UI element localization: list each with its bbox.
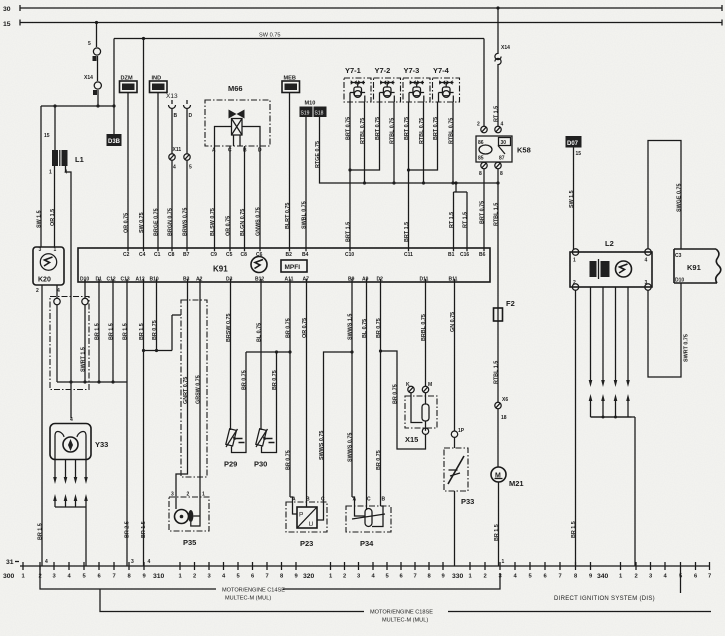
wire D2 branch to X15 loop BR 0.75 (381, 351, 426, 449)
wire spark plug return to rail (591, 417, 636, 566)
wires L2 HT outputs to spark plugs (589, 287, 632, 419)
wire ECU A7 GR 0.75 to P23 pin B (302, 282, 308, 507)
wire to L1 terminal 15 (44, 106, 55, 150)
shield box around P35 wires (181, 300, 207, 477)
oxygen sensor P34 (346, 497, 391, 549)
wire L2 pin2 ground BR 1.5 (571, 290, 577, 566)
wire K20 pin2 BR 1.5 to ground rail (38, 285, 49, 566)
wire Y7-3 RTBL 0.75 (419, 102, 425, 183)
wire ECU B11 GN 0.75 to P33 (450, 282, 465, 448)
ECU top pin labels (123, 252, 486, 258)
crank sensor P35 (169, 492, 209, 548)
track numbers 300 (3, 573, 147, 580)
bracket MOTOR/ENGINE C18SE (100, 589, 711, 624)
knock sensor P33 (444, 448, 474, 566)
wire P29 ground branch BR 0.75 (242, 350, 292, 390)
wire shield drain junction y382 (57, 380, 127, 383)
wire ECU D10 shielded SWRT 1.5 (81, 282, 89, 382)
wire ECU C13 ground BR 2.5 to rail (123, 282, 135, 566)
junction node y106 (41, 104, 116, 107)
wire ECU A9 BL 0.75 to P34 (362, 282, 368, 510)
wire sub-rail to K58 pin2 (483, 39, 485, 127)
label DIRECT IGNITION SYSTEM (DIS) (554, 570, 681, 602)
fuel pump M21 (491, 409, 524, 488)
rail tick marks (23, 562, 710, 570)
wire L2 pin3 to ECU D10, SWRT 0.75 (648, 283, 690, 377)
ECU K91 right continuation box (674, 249, 721, 284)
injector Y7-1 (344, 66, 371, 102)
wire X11 to ECU B7, BRWS 0.75 (183, 160, 189, 248)
wire ECU A11 BR 0.75 to P23 pin A (286, 282, 293, 502)
wire Y7-4 RTBL 0.75 (449, 102, 455, 183)
injector Y7-4 (433, 66, 460, 102)
track numbers 310 (153, 573, 299, 580)
wire ignition sub-rail SW 0.75 (114, 33, 484, 39)
wire pair to ECU C11, BRT 1.5 (404, 170, 410, 248)
idle stepper motor M66 (205, 84, 270, 154)
connector IND B4C (150, 76, 168, 93)
injector Y7-2 (374, 66, 401, 102)
wire ECU B10 ground BR 0.75 joins A12 (142, 282, 181, 352)
connector X11 (169, 147, 192, 171)
wire ECU D11 BRBL 0.75 to X15 (421, 282, 427, 386)
connector X6 pin 18 (495, 397, 509, 421)
wire B44 to ECU C2, OR 0.75 (124, 93, 130, 249)
wire L2 pin4 to ECU C3, SWGE 0.75 (648, 141, 683, 250)
track numbers 340 (597, 573, 711, 580)
fuse F2 (494, 299, 515, 321)
wire ECU D1 ground BR 1.5 (95, 282, 101, 382)
shield box around HT lead (50, 297, 89, 390)
DIS ignition coil module L2 (570, 239, 652, 290)
wire Y7-2 RTBL 0.75 (390, 102, 396, 183)
wire ECU C12 ground BR 1.5 (109, 282, 115, 382)
wire ECU A12 ground BR 1.5 to rail (139, 282, 151, 566)
connector D3B (107, 134, 122, 146)
wire rail30 to X14 (497, 8, 499, 52)
connector X13 (166, 93, 193, 119)
wires Y33 to spark plugs (53, 459, 88, 566)
coolant temp sensor P29 (224, 352, 246, 469)
power rail 30 (3, 5, 722, 13)
connector X14 circle (84, 75, 101, 95)
connector DZM B44 (120, 76, 138, 93)
track numbers 330 (452, 573, 593, 580)
wire bus to ECU C16, RT 1.5 (463, 192, 469, 248)
wire P23 pin C SWWS 0.75 riser (319, 350, 354, 502)
wire Y7-4 BRT 0.75 joins Y7-3 (407, 102, 439, 172)
wire M66 B to ECU C8, BLGN 0.75 (240, 146, 246, 248)
wire B4C to ECU C1, BRGE 0.75 (154, 93, 160, 249)
wire S19 to ECU B4, SWBL 0.75 (302, 117, 308, 248)
wire L1 pin4 HT lead to distributor (66, 166, 72, 418)
wire SW 1.5 to K20 pin 3 (37, 106, 43, 247)
wire M21 to ground rail, BR 1.5 (494, 482, 505, 566)
relay K20 (33, 247, 64, 294)
wire pair to ECU C10, BRT 1.5 (346, 170, 352, 248)
wire B58 to ECU B2, BLRT 0.75 (285, 93, 291, 249)
wire K58 85 to ECU B6, BRT 0.75 (480, 169, 486, 248)
junction dots on rails (95, 21, 98, 24)
wire Y7-1 RTBL 0.75 (360, 102, 366, 183)
wire X13 to X11 (172, 109, 187, 154)
connector X14 (495, 45, 510, 66)
wire drop from rail 15 at x96 (97, 23, 99, 107)
distributor Y33 (50, 417, 108, 460)
wire ECU A2 GRSW 0.75 to P35 (196, 282, 202, 510)
wire ECU B3 GNRT 0.75 to P35 pin 3 (176, 282, 189, 497)
MAP sensor P23 (286, 497, 327, 549)
wire riser x114 sub-rail to D3B (113, 39, 115, 135)
ignition coil L1 (49, 150, 84, 176)
wire Y7-2 BRT 0.75 joins Y7-1 (348, 102, 381, 172)
wire K58 87 down to fuse F2, RTBL 1.5 (494, 169, 500, 308)
ECU K91 main box (78, 248, 490, 282)
wire L1 pin1 OR 1.5 to K20 pin 1 (50, 166, 56, 247)
ground rail 31 (6, 559, 710, 566)
injector supply bus (322, 181, 498, 184)
ECU bottom pin labels (80, 277, 458, 283)
wire ECU D3 BRSW 0.75 to P29 (226, 282, 232, 430)
wire X14 to K58 pin4, RT 1.5 (494, 66, 500, 126)
track numbers 320 (303, 573, 446, 580)
splice M10 S19 S18 (300, 101, 327, 118)
relay K58 (476, 122, 531, 178)
connector D07 terminal 15 (566, 136, 582, 157)
wire sub-rail to ECU C4, SW 0.75 (139, 39, 145, 249)
wire M66 C to ECU C5, OR 0.75 (226, 146, 232, 248)
power rail 15 (3, 20, 722, 29)
wire Y7-3 BRT 0.75 (404, 102, 410, 170)
wire M66 A to ECU C9, BLSW 0.75 (210, 146, 216, 248)
wire ECU B12 BL 0.75 to P30 (257, 282, 263, 430)
wire S18 to injector bus, RTGE 0.75 (315, 117, 322, 183)
wire bus to ECU B1, RT 1.5 (449, 181, 467, 248)
wire M66 D to ECU C6, GNWS 0.75 (256, 146, 262, 248)
connector MEB B58 (282, 76, 300, 93)
wire Y7-1 BRT 0.75 (346, 102, 352, 170)
wire X11 to ECU C8, BRGN 0.75 (168, 160, 174, 248)
wire ECU D2 BR 0.75 to P34 (376, 282, 383, 510)
bracket MOTOR/ENGINE C14SE (40, 566, 500, 602)
wire D07 to L2 pin 1, SW 1.5 (569, 148, 575, 250)
injector Y7-3 (403, 66, 430, 102)
CO adjuster X15 (405, 382, 437, 444)
wire ECU B9 SWWS 1.5 to P34 (348, 282, 355, 506)
wire F2 to X6, RTBL 1.5 (494, 321, 500, 402)
wire K20 pin4 shielded (54, 285, 60, 382)
air temp sensor P30 (254, 352, 277, 469)
ECU pin stubs (85, 248, 484, 282)
connector X5 circle (88, 41, 101, 61)
